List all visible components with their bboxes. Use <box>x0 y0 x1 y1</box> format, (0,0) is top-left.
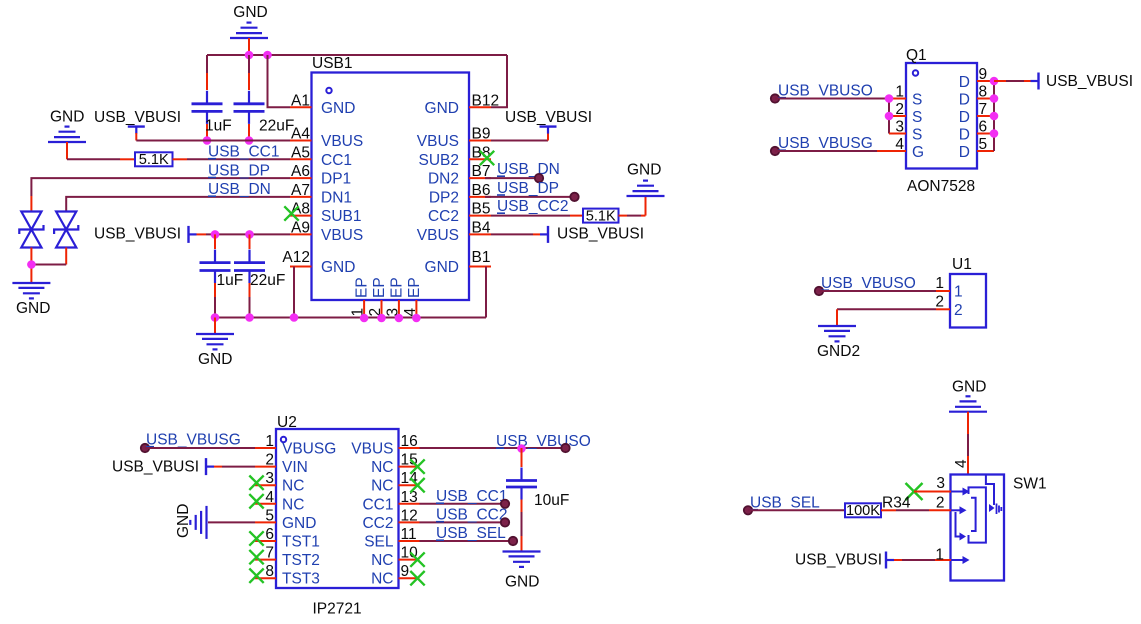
svg-text:3: 3 <box>265 470 274 487</box>
svg-text:SUB2: SUB2 <box>419 152 460 169</box>
wire net USB_CC2 from U2 pin 12 <box>420 507 508 524</box>
svg-text:USB_DP: USB_DP <box>208 162 270 179</box>
svg-text:VBUSG: VBUSG <box>282 441 336 458</box>
svg-text:GND: GND <box>425 259 459 276</box>
svg-text:GND: GND <box>282 515 316 532</box>
junction Q1 pin1 <box>885 94 894 103</box>
svg-text:DN1: DN1 <box>321 189 352 206</box>
svg-text:1uF: 1uF <box>205 118 232 135</box>
svg-text:U1: U1 <box>952 256 972 273</box>
wire bottom GND rail <box>215 317 486 319</box>
power symbol GND (left of 5.1K resistor) <box>48 109 86 160</box>
svg-text:NC: NC <box>371 459 393 476</box>
wire Q1 source bus <box>889 99 906 134</box>
svg-text:NC: NC <box>282 478 304 495</box>
svg-text:VBUS: VBUS <box>321 227 363 244</box>
svg-text:NC: NC <box>371 478 393 495</box>
junction bottom rail at 1uF <box>211 313 220 322</box>
capacitor 10uF <box>506 448 569 552</box>
junction bottom rail at EP2 <box>377 314 386 323</box>
TVS diode D1 (USB_DP ESD) <box>19 212 43 265</box>
svg-text:D: D <box>959 127 970 144</box>
svg-text:USB_VBUSI: USB_VBUSI <box>94 109 181 126</box>
junction on top rail at GND stem <box>245 51 254 60</box>
power symbol GND (above SW1) <box>949 379 987 475</box>
svg-text:B4: B4 <box>472 219 491 236</box>
svg-text:2: 2 <box>936 495 945 512</box>
power port USB_VBUSI (from Q1 drain) <box>994 73 1133 91</box>
svg-text:9: 9 <box>979 66 988 83</box>
power port USB_VBUSI (to SW1 pin 1) <box>795 547 951 569</box>
svg-text:D: D <box>959 144 970 161</box>
svg-text:1: 1 <box>895 84 904 101</box>
svg-text:R34: R34 <box>882 495 911 512</box>
power symbol GND (below 10uF) <box>503 552 541 591</box>
junction bottom 1uF at VBUS wire <box>211 230 220 239</box>
power symbol GND2 (below U1) <box>817 326 860 360</box>
wire U1 pin 2 to GND2 <box>837 309 936 326</box>
svg-text:10uF: 10uF <box>534 492 569 509</box>
svg-text:D: D <box>959 74 970 91</box>
junction at diode D1 bottom <box>27 260 36 269</box>
svg-text:DP2: DP2 <box>429 189 459 206</box>
no-connect X on pin A8 <box>284 206 298 220</box>
junction 1uF at VBUS wire <box>203 136 212 145</box>
junction bottom rail at EP3 <box>395 314 404 323</box>
svg-text:2: 2 <box>954 302 963 319</box>
svg-text:NC: NC <box>282 496 304 513</box>
resistor 5.1K (CC1 pulldown) <box>135 152 173 168</box>
svg-text:DN2: DN2 <box>428 171 459 188</box>
svg-text:1: 1 <box>265 433 274 450</box>
svg-text:CC2: CC2 <box>362 515 393 532</box>
svg-text:11: 11 <box>401 526 417 543</box>
resistor 5.1K (CC2 pulldown) <box>583 208 619 224</box>
junction Q1 drain at y=116 <box>990 112 999 121</box>
svg-text:6: 6 <box>265 526 274 543</box>
svg-text:AON7528: AON7528 <box>907 178 975 195</box>
capacitor C? 1uF (bottom) <box>200 234 244 317</box>
svg-text:1uF: 1uF <box>217 272 244 289</box>
TVS diode D2 (USB_DN ESD) <box>54 212 78 265</box>
svg-text:USB1: USB1 <box>312 55 353 72</box>
transistor Q1 AON7528 body <box>906 47 977 195</box>
svg-text:4: 4 <box>953 459 970 468</box>
SW1 internal switch symbol <box>951 474 1001 564</box>
svg-text:22uF: 22uF <box>250 272 285 289</box>
svg-text:VBUS: VBUS <box>321 133 363 150</box>
no-connect X on U2 pin 7 <box>249 550 263 564</box>
wire rail to pin A1 <box>268 55 291 107</box>
wire net USB_DN to pin A7 <box>66 181 290 212</box>
port dot USB_DP <box>570 193 578 201</box>
no-connect X on U2 pin 8 <box>249 569 263 583</box>
capacitor C? 1uF (top) <box>192 55 232 141</box>
svg-text:NC: NC <box>371 552 393 569</box>
svg-text:CC1: CC1 <box>362 496 393 513</box>
svg-text:USB_VBUSG: USB_VBUSG <box>146 432 241 449</box>
port USB_SEL (to R34) <box>744 495 845 515</box>
svg-text:USB_VBUSI: USB_VBUSI <box>1046 73 1133 90</box>
svg-text:USB_CC1: USB_CC1 <box>208 144 280 161</box>
wire Q1 drain bus <box>993 81 995 151</box>
svg-text:A1: A1 <box>291 92 310 109</box>
svg-text:GND: GND <box>505 574 539 591</box>
svg-text:A9: A9 <box>291 219 310 236</box>
wire R34 to SW1 pin 2 <box>881 495 951 512</box>
capacitor C? 22uF (top) <box>234 55 295 141</box>
port dot USB_VBUSO <box>561 444 569 452</box>
no-connect X on U2 pin 10 <box>410 552 424 566</box>
wire diodes common to GND <box>31 265 66 284</box>
svg-text:USB_VBUSO: USB_VBUSO <box>496 433 591 450</box>
svg-text:SEL: SEL <box>364 534 394 551</box>
svg-text:USB_SEL: USB_SEL <box>436 525 506 542</box>
junction 10uF at VBUS wire <box>517 444 526 453</box>
svg-text:1: 1 <box>954 284 963 301</box>
svg-text:USB_DP: USB_DP <box>497 180 559 197</box>
IC U2 IP2721 body <box>276 414 399 618</box>
resistor R34 100K <box>845 495 911 520</box>
junction Q1 drain at y=81 <box>990 77 999 86</box>
svg-text:GND: GND <box>627 162 661 179</box>
svg-text:USB_SEL: USB_SEL <box>750 495 820 512</box>
svg-text:GND: GND <box>233 4 267 21</box>
USB1 pins (A1-A12, B1-B12, EP1-4) <box>282 92 499 317</box>
no-connect X on pin B8 <box>480 151 494 165</box>
svg-text:S: S <box>912 109 922 126</box>
wire net USB_DP to pin A6 <box>31 162 290 211</box>
svg-text:6: 6 <box>979 119 988 136</box>
power port USB_VBUSI (to pin A4) <box>94 109 290 141</box>
junction bottom rail at EP4 <box>412 314 421 323</box>
port dot USB_SEL <box>509 537 517 545</box>
svg-text:8: 8 <box>265 563 274 580</box>
svg-text:CC1: CC1 <box>321 152 352 169</box>
svg-text:USB_DN: USB_DN <box>497 161 560 178</box>
power symbol GND (right of CC2 resistor) <box>627 162 665 197</box>
svg-text:B5: B5 <box>472 201 491 218</box>
svg-text:EP: EP <box>354 277 371 298</box>
svg-text:GND2: GND2 <box>817 343 860 360</box>
svg-text:EP: EP <box>388 277 405 298</box>
port USB_VBUSO (to Q1 source) <box>771 83 889 103</box>
svg-text:NC: NC <box>371 571 393 588</box>
no-connect X on U2 pin 3 <box>249 476 263 490</box>
svg-text:USB_VBUSG: USB_VBUSG <box>778 135 873 152</box>
svg-text:EP: EP <box>371 277 388 298</box>
svg-text:CC2: CC2 <box>428 208 459 225</box>
power port USB_VBUSI (to pin B9) <box>491 109 592 141</box>
power symbol GND (top, above USB1 decoupling caps) <box>230 4 268 55</box>
junction bottom 22uF at VBUS wire <box>245 230 254 239</box>
svg-text:5: 5 <box>979 136 988 153</box>
connector U1 body <box>950 256 986 328</box>
wire rail to pin B12 <box>491 55 507 107</box>
svg-text:USB_VBUSO: USB_VBUSO <box>778 83 873 100</box>
port dot USB_CC2 <box>501 518 509 526</box>
svg-text:VBUS: VBUS <box>417 133 459 150</box>
junction bottom rail at EP1 <box>360 314 369 323</box>
wire pin A12 to bottom rail <box>294 267 312 318</box>
svg-text:USB_CC2: USB_CC2 <box>497 198 569 215</box>
port USB_VBUSO (to U1 pin 1) <box>815 275 936 295</box>
svg-text:B9: B9 <box>472 126 491 143</box>
wire top GND rail <box>207 54 507 56</box>
svg-text:GND: GND <box>16 300 50 317</box>
wire net USB_VBUSO from U2 pin 16 <box>420 433 591 450</box>
connector USB1 (USB-C receptacle) body <box>312 55 470 300</box>
svg-text:GND: GND <box>321 259 355 276</box>
wire GND to resistor <box>67 158 135 160</box>
svg-text:SUB1: SUB1 <box>321 208 362 225</box>
svg-text:DP1: DP1 <box>321 171 351 188</box>
svg-text:USB_CC1: USB_CC1 <box>436 488 508 505</box>
svg-text:7: 7 <box>979 101 988 118</box>
port dot USB_DN <box>535 174 543 182</box>
svg-text:2: 2 <box>265 452 274 469</box>
svg-text:SW1: SW1 <box>1013 476 1047 493</box>
svg-text:A7: A7 <box>291 182 310 199</box>
svg-text:D: D <box>959 92 970 109</box>
power port USB_VBUSI (to pin A9) <box>94 226 290 243</box>
svg-text:4: 4 <box>265 489 274 506</box>
svg-text:2: 2 <box>935 293 944 310</box>
no-connect X on U2 pin 6 <box>249 531 263 545</box>
svg-text:Q1: Q1 <box>906 47 927 64</box>
no-connect X on U2 pin 15 <box>410 459 424 473</box>
svg-text:5: 5 <box>265 507 274 524</box>
U1 pins <box>935 275 962 319</box>
power symbol GND (below bottom rail) <box>196 318 234 369</box>
svg-text:GND: GND <box>50 109 84 126</box>
svg-text:GND: GND <box>952 379 986 396</box>
svg-text:22uF: 22uF <box>259 118 294 135</box>
svg-text:GND: GND <box>175 504 192 538</box>
U2 pins <box>255 433 420 588</box>
svg-text:A6: A6 <box>291 163 310 180</box>
no-connect X on U2 pin 9 <box>410 571 424 585</box>
svg-text:12: 12 <box>401 507 418 524</box>
svg-text:USB_DN: USB_DN <box>208 181 271 198</box>
svg-text:USB_VBUSO: USB_VBUSO <box>821 275 916 292</box>
junction Q1 drain at y=98.5 <box>990 94 999 103</box>
no-connect X on SW1 pin 3 <box>906 483 923 500</box>
junction Q1 pin2 <box>885 112 894 121</box>
wire net USB_CC2 from pin B5 <box>491 198 583 216</box>
svg-text:USB_VBUSI: USB_VBUSI <box>557 226 644 243</box>
svg-text:13: 13 <box>401 489 418 506</box>
svg-text:USB_VBUSI: USB_VBUSI <box>112 459 199 476</box>
svg-text:VBUS: VBUS <box>351 441 393 458</box>
junction Q1 drain at y=133.5 <box>990 129 999 138</box>
svg-text:1: 1 <box>935 547 944 564</box>
port dot USB_CC1 <box>501 500 509 508</box>
wire net USB_SEL from U2 pin 11 <box>420 525 509 542</box>
switch SW1 body <box>951 475 1047 581</box>
capacitor C? 22uF (bottom) <box>234 234 285 317</box>
svg-text:2: 2 <box>895 101 904 118</box>
power symbol GND (left of U2 pin 5) <box>175 504 255 539</box>
wire net USB_CC1 from U2 pin 13 <box>420 488 508 505</box>
svg-text:A12: A12 <box>282 249 310 266</box>
no-connect X on U2 pin 4 <box>249 494 263 508</box>
port USB_VBUSG (to U2 pin 1) <box>141 432 255 453</box>
svg-text:G: G <box>912 144 924 161</box>
svg-text:USB_VBUSI: USB_VBUSI <box>795 552 882 569</box>
svg-text:IP2721: IP2721 <box>313 601 362 618</box>
svg-text:USB_VBUSI: USB_VBUSI <box>505 109 592 126</box>
Q1 pins <box>889 66 994 161</box>
wire SW1 pin 3 <box>914 475 951 492</box>
junction bottom rail at 22uF <box>245 313 254 322</box>
wire net USB_DN from pin B7 <box>485 161 560 178</box>
svg-text:GND: GND <box>198 351 232 368</box>
svg-text:EP: EP <box>406 277 423 298</box>
svg-text:3: 3 <box>936 475 945 492</box>
svg-text:U2: U2 <box>277 414 297 431</box>
svg-text:D: D <box>959 109 970 126</box>
svg-text:5.1K: 5.1K <box>139 152 169 168</box>
svg-text:7: 7 <box>265 545 274 562</box>
svg-text:15: 15 <box>401 452 418 469</box>
no-connect X on U2 pin 14 <box>410 478 424 492</box>
svg-text:S: S <box>912 127 922 144</box>
wire net USB_DP from pin B6 <box>485 180 571 197</box>
svg-text:TST3: TST3 <box>282 571 320 588</box>
wire resistor to GND <box>619 196 646 216</box>
svg-text:8: 8 <box>979 84 988 101</box>
wire pin B1 to bottom rail <box>469 267 486 318</box>
power port USB_VBUSI (to U2 pin 2) <box>112 458 255 475</box>
svg-text:VBUS: VBUS <box>417 227 459 244</box>
svg-text:USB_VBUSI: USB_VBUSI <box>94 226 181 243</box>
svg-text:A5: A5 <box>291 144 310 161</box>
wire resistor to pin A5, net USB_CC1 <box>173 144 291 161</box>
junction bottom rail at A12 <box>290 313 299 322</box>
svg-text:100K: 100K <box>846 503 880 519</box>
svg-text:TST1: TST1 <box>282 534 320 551</box>
port USB_VBUSG (to Q1 gate) <box>771 135 906 155</box>
svg-text:1: 1 <box>935 275 944 292</box>
power symbol GND (below TVS diodes) <box>12 283 50 317</box>
svg-text:VIN: VIN <box>282 459 308 476</box>
svg-text:B1: B1 <box>472 249 491 266</box>
svg-text:GND: GND <box>425 100 459 117</box>
svg-text:5.1K: 5.1K <box>586 208 616 224</box>
svg-text:16: 16 <box>401 433 418 450</box>
svg-text:S: S <box>912 92 922 109</box>
power port USB_VBUSI (to pin B4) <box>491 226 644 243</box>
svg-text:TST2: TST2 <box>282 552 320 569</box>
junction 22uF at VBUS wire <box>245 136 254 145</box>
svg-text:USB_CC2: USB_CC2 <box>436 507 508 524</box>
svg-text:GND: GND <box>321 100 355 117</box>
junction on top rail to pin A1 <box>263 51 272 60</box>
svg-text:9: 9 <box>401 563 410 580</box>
